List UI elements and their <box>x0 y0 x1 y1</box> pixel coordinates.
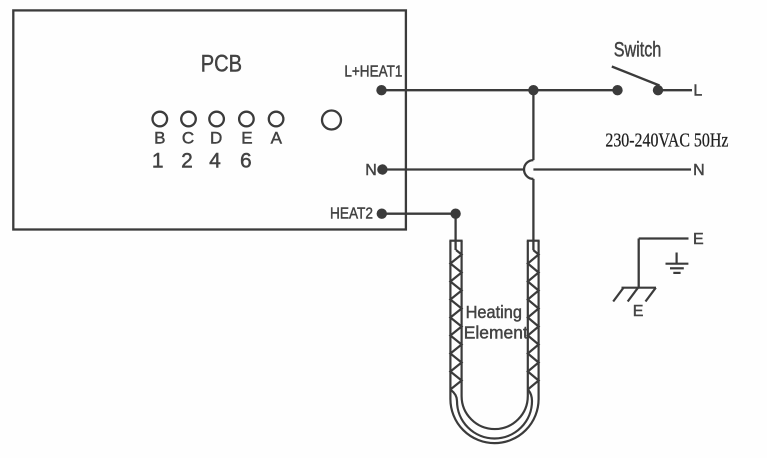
wire vertical from hop to heating element right tube <box>532 179 534 250</box>
wire hop over N line <box>524 160 533 179</box>
svg-text:E: E <box>633 303 644 320</box>
svg-text:B: B <box>154 129 165 148</box>
LED circle B <box>153 112 168 127</box>
wire HEAT2 horizontal <box>382 213 456 215</box>
svg-text:Switch: Switch <box>614 39 662 62</box>
heating element <box>449 241 539 443</box>
wire HEAT2 vertical down to heating element left tube <box>454 214 456 250</box>
wire N horizontal right segment <box>533 168 691 170</box>
svg-text:PCB: PCB <box>201 51 242 78</box>
LED circle C <box>181 112 196 127</box>
svg-text:N: N <box>365 162 377 179</box>
svg-text:230-240VAC 50Hz: 230-240VAC 50Hz <box>605 130 728 152</box>
LED circle D <box>209 112 224 127</box>
wire vertical from L junction down to hop <box>532 90 534 160</box>
right tube top cap <box>527 240 540 242</box>
LED circle E <box>239 112 254 127</box>
svg-text:6: 6 <box>240 150 252 173</box>
wire switch to L <box>658 89 692 91</box>
terminal dot L+HEAT1 <box>376 85 386 95</box>
svg-text:L+HEAT1: L+HEAT1 <box>344 64 402 81</box>
svg-text:Heating: Heating <box>466 302 522 322</box>
left tube left wall <box>449 241 451 399</box>
junction dot HEAT2 corner <box>450 209 460 219</box>
svg-text:D: D <box>210 129 222 148</box>
switch lever <box>612 67 660 86</box>
svg-text:HEAT2: HEAT2 <box>330 206 373 223</box>
svg-text:4: 4 <box>209 150 221 173</box>
svg-text:Element: Element <box>464 323 528 343</box>
svg-text:1: 1 <box>152 150 164 173</box>
ground chassis symbol <box>613 288 656 302</box>
PCB board outline <box>13 10 406 229</box>
terminal dot HEAT2 <box>377 209 387 219</box>
left tube coil zigzag <box>450 250 461 390</box>
switch left contact dot <box>612 85 622 95</box>
right tube coil zigzag <box>528 250 539 390</box>
wire N horizontal left segment <box>382 168 524 170</box>
terminal dot N <box>377 164 387 174</box>
U-bend outer arc <box>450 399 538 443</box>
right tube left wall <box>527 241 529 396</box>
wire L+HEAT1 horizontal <box>382 89 618 91</box>
ground earth symbol <box>666 253 689 273</box>
right tube right wall <box>537 241 539 399</box>
wire earth E vertical <box>638 239 640 288</box>
large circle indicator <box>322 111 341 130</box>
U-bend inner arc <box>462 396 528 429</box>
svg-text:2: 2 <box>181 150 193 173</box>
svg-text:E: E <box>241 129 252 148</box>
svg-text:A: A <box>271 129 283 148</box>
svg-text:C: C <box>182 129 194 148</box>
LED circle A <box>269 112 284 127</box>
svg-text:L: L <box>693 83 702 100</box>
switch right contact dot <box>653 85 663 95</box>
left tube top cap <box>449 240 462 242</box>
junction dot on L wire <box>528 85 538 95</box>
left tube right wall <box>461 241 463 396</box>
svg-text:N: N <box>693 162 705 179</box>
U-bend middle coil line <box>451 390 532 439</box>
svg-text:E: E <box>693 231 704 248</box>
wire earth E horizontal <box>639 237 689 239</box>
